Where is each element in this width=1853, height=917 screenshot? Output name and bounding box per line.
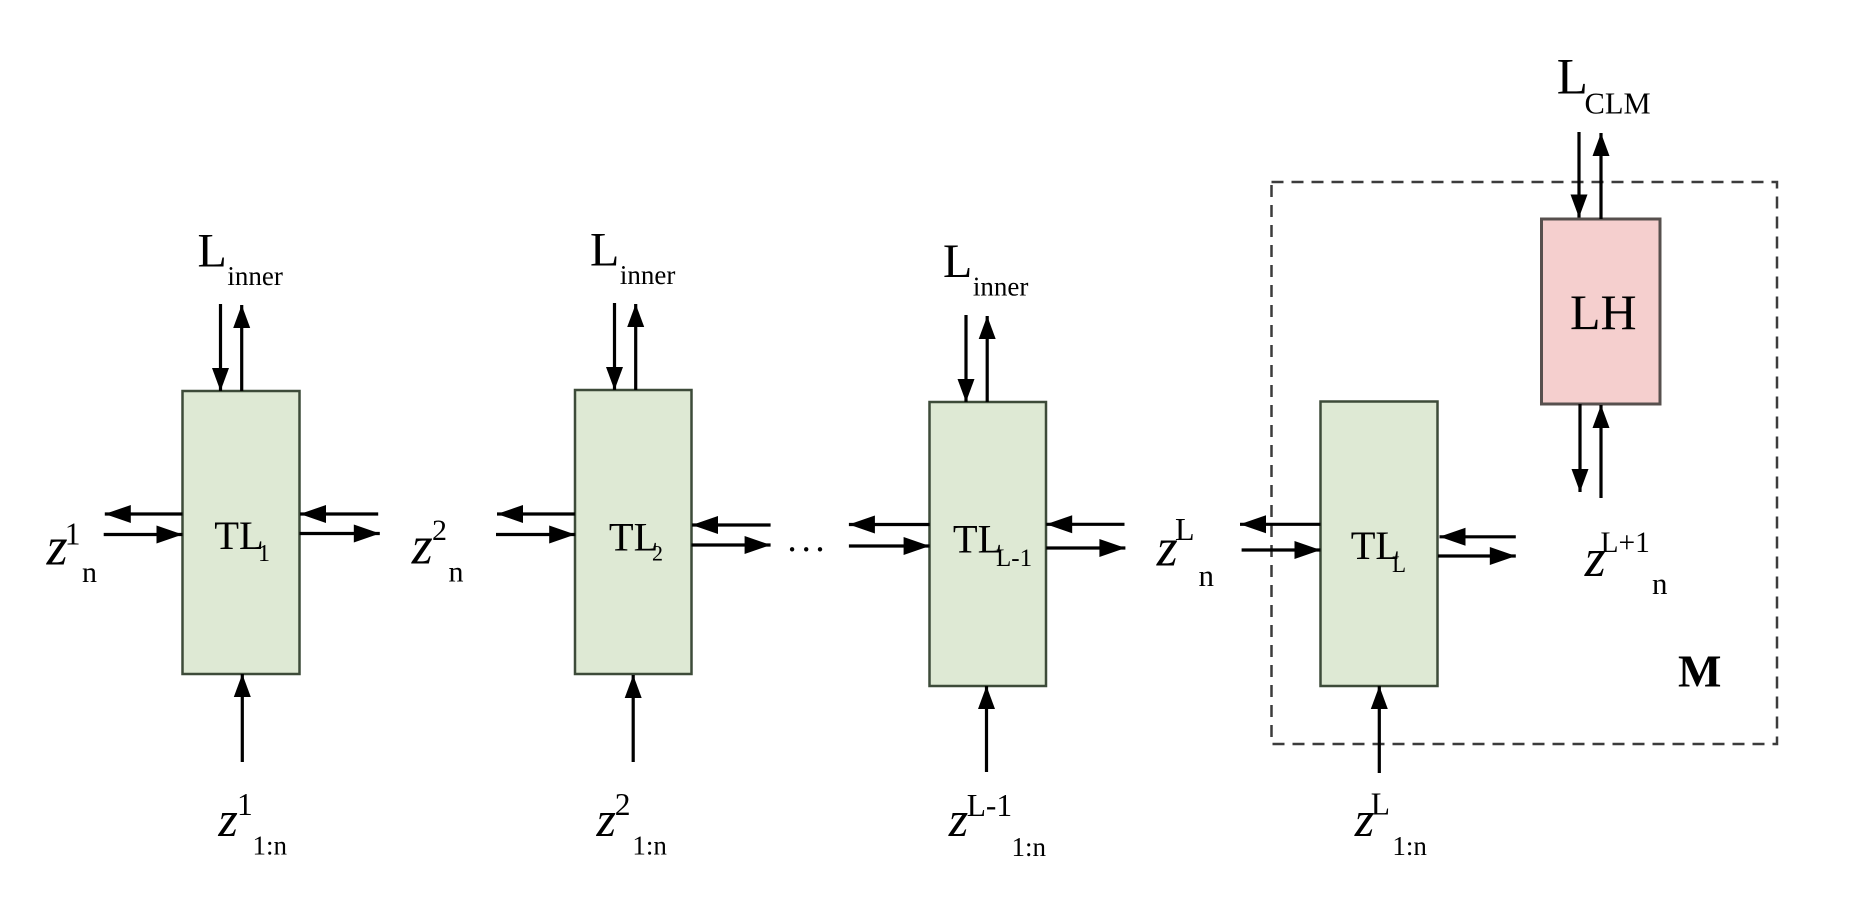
- svg-text:L: L: [1557, 50, 1588, 106]
- svg-text:L: L: [943, 235, 972, 288]
- svg-text:n: n: [1199, 558, 1215, 593]
- svg-text:1:n: 1:n: [1392, 831, 1427, 861]
- svg-text:inner: inner: [620, 260, 675, 290]
- svg-text:inner: inner: [227, 261, 282, 291]
- svg-text:1: 1: [237, 787, 253, 822]
- svg-text:TL: TL: [214, 513, 263, 558]
- svg-text:L: L: [1371, 787, 1390, 822]
- svg-text:TL: TL: [953, 516, 1002, 561]
- svg-text:2: 2: [652, 541, 663, 566]
- svg-text:z: z: [217, 791, 237, 847]
- svg-text:L: L: [1175, 511, 1195, 547]
- svg-text:TL: TL: [609, 515, 658, 560]
- svg-text:L+1: L+1: [1601, 527, 1650, 559]
- svg-text:1:n: 1:n: [632, 831, 667, 861]
- svg-text:2: 2: [432, 514, 447, 547]
- svg-text:z: z: [596, 791, 616, 847]
- svg-text:L: L: [1392, 552, 1406, 577]
- svg-text:L-1: L-1: [996, 545, 1032, 572]
- svg-text:L: L: [198, 224, 227, 277]
- svg-text:1: 1: [258, 541, 270, 567]
- svg-text:z: z: [948, 791, 968, 847]
- svg-text:1: 1: [65, 517, 81, 552]
- svg-text:L-1: L-1: [967, 788, 1012, 823]
- svg-text:inner: inner: [973, 272, 1028, 302]
- svg-text:L: L: [590, 223, 619, 276]
- svg-text:1:n: 1:n: [1012, 832, 1047, 862]
- svg-text:CLM: CLM: [1585, 86, 1651, 120]
- svg-text:z: z: [411, 516, 433, 576]
- svg-text:n: n: [82, 556, 97, 589]
- svg-text:n: n: [449, 555, 464, 588]
- svg-text:n: n: [1652, 566, 1668, 601]
- svg-text:LH: LH: [1570, 284, 1637, 340]
- svg-text:M: M: [1678, 646, 1721, 697]
- svg-text:1:n: 1:n: [253, 830, 288, 860]
- svg-text:2: 2: [615, 787, 631, 822]
